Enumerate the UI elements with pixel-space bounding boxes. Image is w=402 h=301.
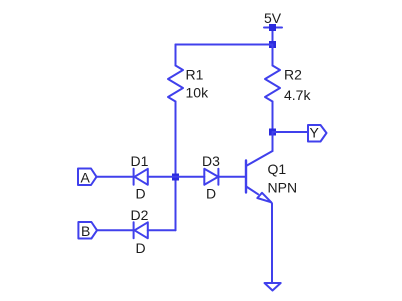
svg-text:5V: 5V bbox=[264, 10, 282, 26]
svg-text:A: A bbox=[81, 170, 91, 186]
power 5V bar bbox=[264, 28, 282, 45]
resistor R2 bbox=[265, 66, 280, 102]
svg-text:B: B bbox=[81, 223, 90, 239]
svg-text:D: D bbox=[206, 186, 216, 202]
junction node top of rails bbox=[269, 41, 276, 48]
svg-text:10k: 10k bbox=[186, 84, 210, 100]
wire R2 bottom lead bbox=[272, 102, 274, 133]
wire B to D2 bbox=[97, 229, 134, 231]
svg-text:D: D bbox=[136, 240, 146, 256]
wire A to D1 bbox=[97, 176, 134, 178]
svg-text:R1: R1 bbox=[186, 67, 204, 83]
wire D1 to junction bbox=[148, 176, 176, 178]
junction node at D1/D3 bbox=[172, 174, 179, 181]
svg-text:D2: D2 bbox=[131, 207, 149, 223]
wire emitter down bbox=[271, 204, 273, 284]
svg-text:D1: D1 bbox=[131, 153, 149, 169]
svg-text:Y: Y bbox=[310, 125, 320, 141]
diode D2 bbox=[134, 222, 148, 238]
junction square at 5V bbox=[269, 24, 276, 31]
svg-text:R2: R2 bbox=[284, 67, 302, 83]
svg-text:NPN: NPN bbox=[268, 180, 298, 196]
junction node at collector/Y bbox=[269, 129, 276, 136]
wire D3 to base bbox=[218, 176, 245, 178]
port B bbox=[78, 222, 97, 239]
wire R1 top lead bbox=[175, 45, 177, 66]
wire R2 top lead bbox=[272, 45, 274, 66]
diode D3 bbox=[204, 169, 218, 185]
svg-text:Q1: Q1 bbox=[268, 161, 287, 177]
ground bbox=[265, 283, 281, 291]
wire junction to D3 bbox=[176, 176, 205, 178]
resistor R1 bbox=[168, 66, 183, 102]
wire R1 bottom lead bbox=[175, 102, 177, 178]
diode D1 bbox=[134, 169, 148, 185]
port Y bbox=[308, 125, 327, 142]
svg-text:D3: D3 bbox=[202, 153, 220, 169]
svg-text:4.7k: 4.7k bbox=[284, 87, 311, 103]
transistor Q1 bbox=[246, 132, 273, 204]
wire top horizontal bbox=[176, 44, 273, 46]
svg-text:D: D bbox=[136, 186, 146, 202]
wire down to D2 row bbox=[175, 177, 177, 230]
port A bbox=[78, 169, 97, 186]
wire to Y port bbox=[273, 131, 309, 133]
wire D2 to riser bbox=[148, 229, 176, 231]
